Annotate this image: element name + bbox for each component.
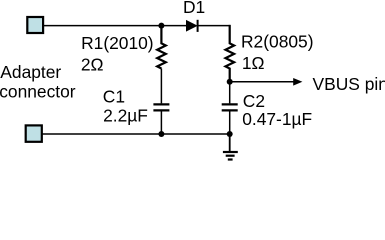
- capacitor C1: [153, 104, 169, 110]
- wire: bottom rail from adapter connector to ground node: [42, 133, 230, 135]
- svg-text:2.2µF: 2.2µF: [103, 105, 148, 125]
- ground: [223, 134, 238, 160]
- resistor R1: [157, 26, 166, 69]
- wire: junction to C2 top plate: [229, 82, 231, 104]
- wire: C1 to bottom rail: [160, 111, 162, 134]
- wire: top rail from adapter connector to D1 anode: [44, 25, 187, 27]
- node: junction C1 / bottom rail: [158, 131, 164, 137]
- svg-text:1Ω: 1Ω: [242, 53, 265, 73]
- svg-text:R1(2010): R1(2010): [81, 33, 154, 53]
- wire: D1 cathode to R2 top corner: [198, 26, 229, 44]
- pad: adapter connector top terminal: [27, 17, 43, 33]
- svg-text:0.47-1µF: 0.47-1µF: [242, 109, 312, 129]
- svg-text:Adapter: Adapter: [0, 62, 61, 82]
- svg-text:R2(0805): R2(0805): [241, 32, 314, 52]
- svg-text:VBUS pin: VBUS pin: [313, 74, 385, 94]
- node: junction R2 / C2 / VBUS: [227, 79, 233, 85]
- wire: C2 to bottom rail: [229, 111, 231, 134]
- svg-text:D1: D1: [183, 0, 205, 17]
- svg-text:C1: C1: [103, 87, 125, 107]
- pad: adapter connector bottom terminal: [26, 125, 42, 141]
- wire: VBUS tap with arrow: [230, 78, 303, 86]
- node: junction at R1 top: [158, 23, 164, 29]
- wire: R1 to C1: [160, 69, 162, 104]
- svg-text:2Ω: 2Ω: [81, 55, 104, 75]
- diode D1: [186, 20, 197, 32]
- capacitor C2: [222, 104, 238, 110]
- svg-text:connector: connector: [0, 82, 76, 102]
- svg-text:C2: C2: [243, 91, 265, 111]
- resistor R2: [226, 25, 235, 82]
- node: junction C2 / bottom rail / ground: [227, 131, 233, 137]
